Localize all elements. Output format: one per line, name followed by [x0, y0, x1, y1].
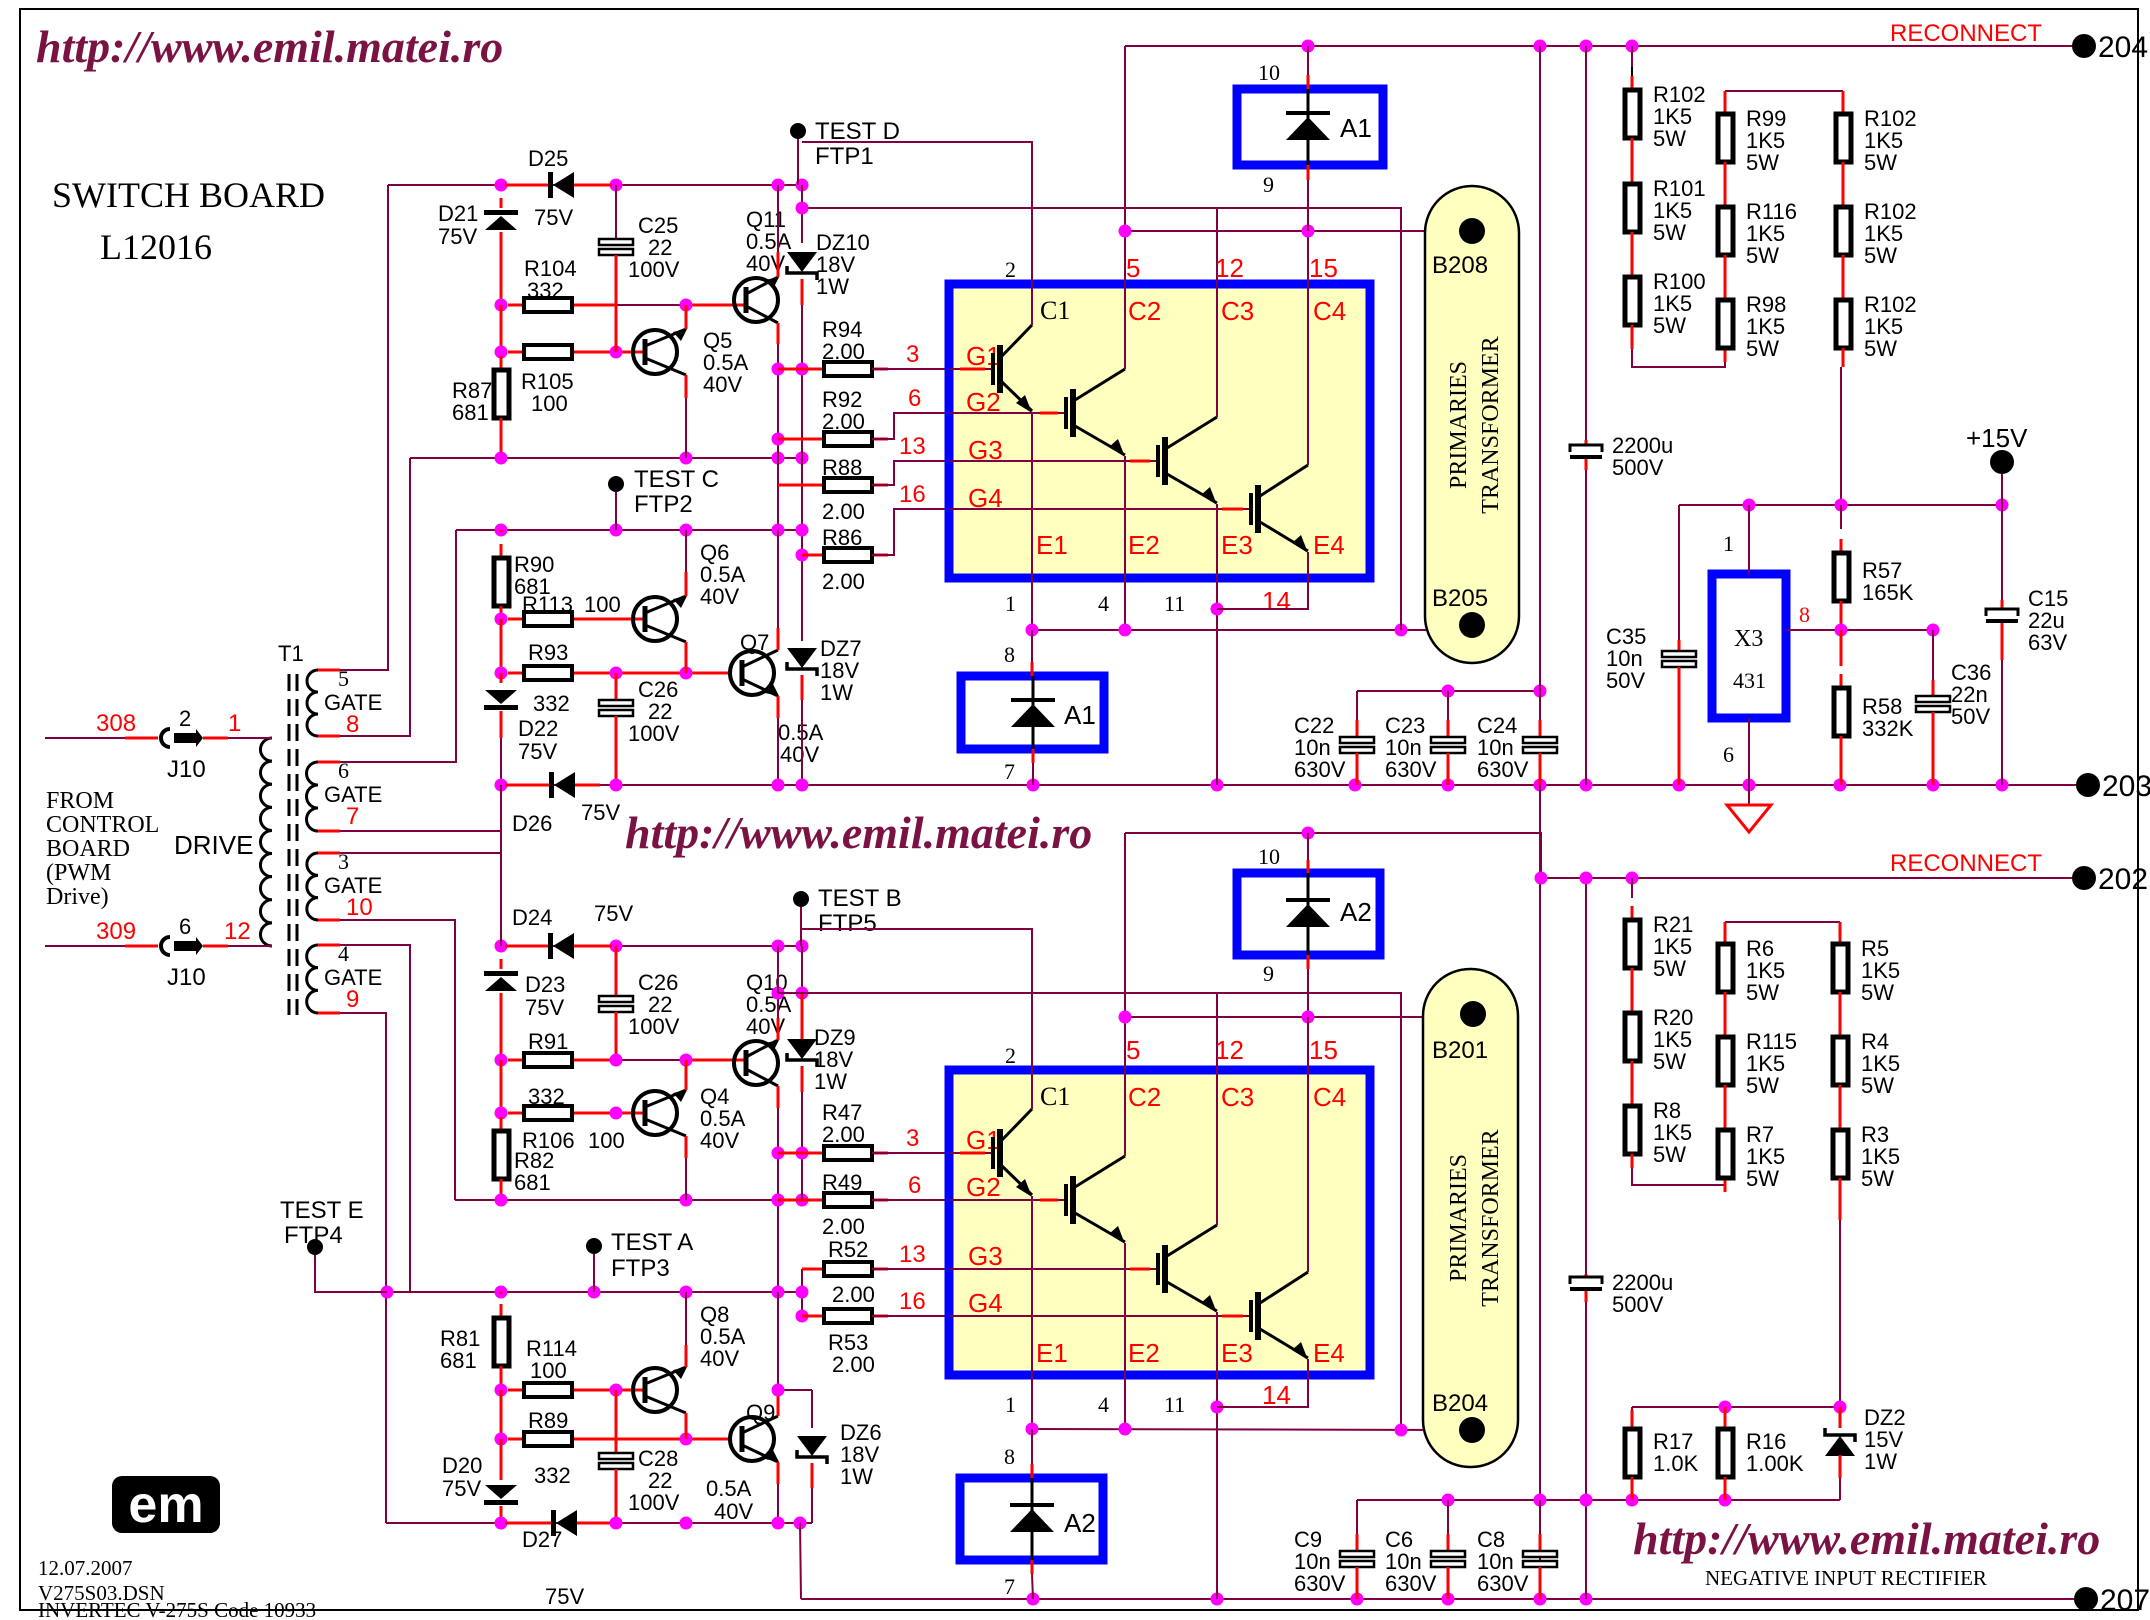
bus x802 TEST B column [800, 907, 802, 946]
label R102 1K5 5W [1864, 199, 1917, 224]
label R87 681 [452, 378, 492, 403]
junction dot R49 left [772, 1194, 785, 1207]
label C28 22 100V [638, 1446, 678, 1471]
svg-text:TEST B: TEST B [818, 885, 902, 912]
wire C2 column above box 2 [1124, 833, 1126, 1070]
wire R106 to Q4 base [588, 1112, 645, 1115]
wire Q5 collector to node [685, 305, 688, 329]
svg-text:630V: 630V [1294, 1571, 1346, 1596]
wire Q10 emitter to R47 row [777, 1086, 780, 1108]
resistor R49 [778, 1199, 824, 1202]
label D20 75V [442, 1453, 482, 1478]
svg-text:G4: G4 [968, 1288, 1003, 1318]
svg-text:2: 2 [179, 706, 191, 731]
connector J10 pin 2 (net 308) [45, 729, 272, 747]
svg-text:2.00: 2.00 [822, 569, 865, 594]
net block D bottom [386, 1522, 812, 1524]
wire pin14 link bottom [1217, 1375, 1308, 1407]
svg-text:G2: G2 [966, 1172, 1001, 1202]
svg-text:RECONNECT: RECONNECT [1890, 20, 2042, 47]
wire D21 to R104 node [500, 232, 503, 305]
label E1 red [1036, 530, 1068, 560]
label R104 332 [524, 256, 577, 281]
wire C1 column inside box [1031, 284, 1033, 325]
svg-text:C3: C3 [1221, 296, 1254, 326]
diode D27 [505, 1522, 551, 1525]
bus x778 block C/D [777, 946, 779, 993]
label DZ6 18V 1W [840, 1420, 882, 1445]
terminal 202 [2072, 866, 2096, 890]
label C4 red [1313, 296, 1346, 326]
svg-text:TRANSFORMER: TRANSFORMER [1478, 1129, 1504, 1306]
wire R49 to G2 pin 6 [872, 1199, 950, 1201]
label pin 5 red bottom box [1126, 1035, 1140, 1065]
label pin 12 red [1215, 253, 1244, 283]
label +15V [1966, 423, 2028, 453]
label R93 332 [528, 640, 568, 665]
label X3 pin 1 [1723, 531, 1734, 556]
svg-text:Q7: Q7 [740, 630, 769, 655]
em logo [112, 1476, 220, 1534]
label G2 red [966, 387, 1001, 417]
svg-text:D24: D24 [512, 905, 552, 930]
svg-text:E3: E3 [1221, 530, 1253, 560]
terminal +15V [1990, 450, 2014, 474]
resistor R53 [801, 1295, 803, 1316]
svg-text:7: 7 [346, 803, 359, 830]
label pin 15 red bottom box [1309, 1035, 1338, 1065]
junction dots 207 net [1027, 1593, 1040, 1606]
svg-text:CONTROL: CONTROL [46, 812, 159, 838]
label C22 10n 630V [1294, 713, 1334, 738]
svg-text:A1: A1 [1340, 113, 1372, 143]
label pin 14 red bottom box [1262, 1380, 1291, 1410]
svg-text:C1: C1 [1040, 296, 1070, 325]
svg-text:DRIVE: DRIVE [174, 830, 253, 860]
test point TEST B [793, 891, 809, 907]
svg-text:E2: E2 [1128, 530, 1160, 560]
wire C3 column inside box 2 [1216, 1070, 1218, 1225]
svg-text:5W: 5W [1653, 313, 1686, 338]
wire T1 pin3 lead to block C net [318, 852, 501, 854]
svg-text:10: 10 [1258, 60, 1280, 85]
label Q6 0.5A 40V [700, 540, 729, 565]
resistor R16 [1724, 1407, 1727, 1430]
svg-text:5W: 5W [1746, 1073, 1779, 1098]
wire node to DZ7 [801, 555, 803, 641]
label DZ10 18V 1W [816, 230, 870, 255]
capacitor C23 [1447, 691, 1449, 720]
svg-text:5W: 5W [1861, 980, 1894, 1005]
wire pin3 column into block C [500, 853, 502, 946]
junction dots 204 net [1302, 40, 1315, 53]
svg-text:R86: R86 [822, 525, 862, 550]
junction dots E bus bottom [1026, 1423, 1039, 1436]
wire Q6 collector to block B net [685, 572, 688, 596]
svg-text:G3: G3 [968, 1241, 1003, 1271]
wire R3 down to DZ2 link [1839, 1178, 1842, 1220]
label pin 9 bottom half [1263, 961, 1274, 986]
label D25 [528, 146, 568, 171]
resistor R93 [508, 666, 588, 680]
svg-text:1W: 1W [816, 274, 849, 299]
svg-text:14: 14 [1262, 586, 1291, 616]
terminal 203 [2076, 773, 2100, 797]
wire Q10 collector to y993 node [777, 1018, 780, 1040]
svg-text:E3: E3 [1221, 1338, 1253, 1368]
ground symbol [1748, 785, 1750, 805]
svg-text:5W: 5W [1653, 220, 1686, 245]
label R49 2.00 [822, 1170, 862, 1195]
wire R94 to G1 pin 3 [872, 368, 950, 370]
net block A bottom [410, 457, 802, 459]
zener DZ9 [801, 993, 804, 1040]
wire R81 to R114 row [500, 1366, 503, 1390]
wire Q4 collector to node [685, 1060, 688, 1090]
label TEST B FTP5 [818, 885, 902, 912]
diode D26 [505, 784, 549, 787]
label pin 9 top [1263, 172, 1274, 197]
wire R21 top stub [1631, 878, 1633, 898]
watermark url middle [625, 807, 1092, 858]
resistor R47 [778, 1152, 824, 1155]
net 204 top [1125, 45, 2083, 47]
wire X3 pin1 [1748, 505, 1750, 574]
bus x1586 vertical with 2200u caps [1585, 46, 1587, 440]
transformer T1 secondary GATE winding pins 4-9 [307, 945, 318, 1013]
wire R113 node down to R93 node [500, 619, 503, 673]
svg-text:C1: C1 [1040, 1082, 1070, 1111]
svg-text:630V: 630V [1477, 757, 1529, 782]
svg-text:5W: 5W [1653, 1142, 1686, 1167]
svg-text:B205: B205 [1432, 585, 1488, 612]
net block C bottom [455, 1199, 778, 1201]
resistor R52 [801, 1269, 803, 1295]
wire Q7 emitter to 203 net [777, 696, 780, 718]
svg-text:E1: E1 [1036, 1338, 1068, 1368]
label winding pin 4 GATE 9 [338, 941, 349, 966]
svg-text:D22: D22 [518, 716, 558, 741]
svg-text:500V: 500V [1612, 1292, 1664, 1317]
label Q9 0.5A 40V [706, 1476, 752, 1501]
label Q5 0.5A 40V [703, 328, 732, 353]
wire R52 to G3 pin 13 [872, 1268, 950, 1270]
svg-text:INVERTEC V-275S Code 10933: INVERTEC V-275S Code 10933 [38, 1598, 316, 1620]
svg-text:75V: 75V [594, 901, 633, 926]
label pin 6 red [908, 385, 921, 412]
label C9 10n 630V [1294, 1527, 1322, 1552]
wire Q9 emitter to block D bottom net [777, 1462, 780, 1484]
svg-text:50V: 50V [1606, 668, 1645, 693]
junction dot R106 right node [610, 1107, 623, 1120]
resistor R6 [1718, 930, 1733, 1006]
label pin 8 bottom half [1004, 1444, 1015, 1469]
svg-text:5W: 5W [1861, 1166, 1894, 1191]
wire R91 node down to R106 node [500, 1060, 503, 1113]
svg-text:E4: E4 [1313, 530, 1345, 560]
transistor Q4 [633, 1090, 687, 1136]
wire R102a top stub [1631, 46, 1633, 67]
label 6 [179, 914, 191, 939]
label R101 1K5 5W [1653, 176, 1706, 201]
wire T1 pin6 lead to block B net [318, 530, 456, 762]
wire pin11 column below box 2 [1216, 1375, 1218, 1599]
resistor R5 [1833, 930, 1848, 1006]
watermark url bottom-right [1633, 1513, 2100, 1564]
svg-text:6: 6 [1723, 742, 1734, 767]
svg-text:G1: G1 [966, 1125, 1001, 1155]
capacitor C24 [1539, 691, 1541, 720]
svg-text:75V: 75V [525, 995, 564, 1020]
wire Q4 emitter to bottom net [685, 1136, 688, 1158]
junction dot C26 bottom block C [610, 1054, 623, 1067]
resistor R86 [802, 554, 824, 557]
IGBT 2 of module 2 [950, 1199, 1066, 1201]
label Q4 0.5A 40V [700, 1084, 729, 1109]
junction dot C26 top [610, 667, 623, 680]
label A2 top [1340, 897, 1372, 927]
svg-text:40V: 40V [703, 372, 742, 397]
label R90 681 [514, 552, 554, 577]
svg-text:5W: 5W [1653, 1049, 1686, 1074]
label R106 100 [522, 1128, 575, 1153]
svg-text:B204: B204 [1432, 1390, 1488, 1417]
junction dots pin8 net [1835, 624, 1848, 637]
wire T1 pin4 lead to TEST A net [318, 945, 410, 1292]
diode A1 bottom [1031, 630, 1033, 662]
wire R92 jog to G2 pin 6 [872, 413, 950, 439]
wire R47 to G1 pin 3 [872, 1152, 950, 1154]
label E4 red [1313, 530, 1345, 560]
junction dot C25 bottom [610, 346, 623, 359]
label R7 1K5 5W [1746, 1122, 1774, 1147]
label R91 332 [528, 1029, 568, 1054]
wire Q5 emitter to bottom net [685, 375, 688, 398]
note FROM CONTROL BOARD (PWM Drive) [46, 788, 114, 814]
label pin 5 red [1126, 253, 1140, 283]
svg-text:A2: A2 [1340, 897, 1372, 927]
svg-text:16: 16 [899, 1288, 926, 1315]
net A2 top (bottom half) [1125, 833, 1541, 878]
junction dot pin14 link [1211, 603, 1224, 616]
label R47 2.00 [822, 1100, 862, 1125]
label R52 2.00 [828, 1237, 868, 1262]
resistor R102 [1836, 193, 1851, 269]
title SWITCH BOARD [52, 175, 325, 215]
label C4 red bottom box [1313, 1082, 1346, 1112]
label D22 75V [518, 716, 558, 741]
svg-text:15: 15 [1309, 253, 1338, 283]
terminal B201 [1460, 1001, 1486, 1027]
capacitor C26 block B [615, 673, 618, 700]
label R100 1K5 5W [1653, 269, 1706, 294]
label E4 red bottom box [1313, 1338, 1345, 1368]
svg-text:E4: E4 [1313, 1338, 1345, 1368]
wire C4 column inside box [1307, 284, 1309, 465]
svg-text:TEST A: TEST A [611, 1229, 693, 1256]
svg-text:2.00: 2.00 [822, 339, 865, 364]
label C3 red [1221, 296, 1254, 326]
svg-text:5W: 5W [1746, 1166, 1779, 1191]
snubber diode box A2 bottom [960, 1478, 1103, 1560]
label D23 75V [525, 972, 565, 997]
svg-text:Drive): Drive) [46, 884, 109, 910]
junction dot DZ9 top [796, 987, 809, 1000]
terminal B208 [1459, 218, 1485, 244]
label B204 [1432, 1390, 1488, 1417]
svg-text:G1: G1 [966, 341, 1001, 371]
net y208 to B205 loop [802, 208, 1401, 620]
label DZ9 18V 1W [814, 1025, 856, 1050]
label C26 22 100V block B [638, 677, 678, 702]
svg-text:Q9: Q9 [746, 1400, 775, 1425]
label C36 22n 50V [1951, 660, 1991, 685]
junction dot Q5 collector node [680, 299, 693, 312]
label C23 10n 630V [1385, 713, 1425, 738]
svg-text:TEST E: TEST E [280, 1197, 364, 1224]
IGBT 4 of module 2 [950, 1315, 1251, 1317]
resistor R87 [494, 356, 509, 432]
label pin 6 red bottom [908, 1172, 921, 1199]
label G1 red [966, 341, 1001, 371]
diode A1 top [1307, 46, 1309, 75]
svg-text:D23: D23 [525, 972, 565, 997]
label DZ2 15V 1W [1864, 1405, 1906, 1430]
capacitor 2200u bottom [1570, 1277, 1602, 1291]
svg-text:FTP3: FTP3 [611, 1255, 670, 1282]
svg-text:5W: 5W [1864, 243, 1897, 268]
label C26 22 100V block C [638, 970, 678, 995]
label pin 10 bottom half [1258, 844, 1280, 869]
label G2 red bottom box [966, 1172, 1001, 1202]
svg-text:SWITCH BOARD: SWITCH BOARD [52, 175, 325, 215]
label pin 16 red [899, 481, 926, 508]
label R6 1K5 5W [1746, 936, 1774, 961]
bus x778 down block A/B [777, 369, 779, 530]
svg-text:1.00K: 1.00K [1746, 1451, 1804, 1476]
label 308 [96, 710, 136, 737]
resistor R102 [1625, 76, 1640, 152]
label E3 red bottom box [1221, 1338, 1253, 1368]
svg-text:2.00: 2.00 [822, 409, 865, 434]
transistor Q8 [633, 1367, 687, 1413]
wire pin14 link [1217, 578, 1308, 609]
label winding pin 5 GATE 8 [338, 666, 349, 691]
test point TEST A [586, 1238, 602, 1254]
transformer T1 secondary GATE winding pins 6-7 [307, 762, 319, 831]
wire R89 to Q9 base node [588, 1438, 730, 1441]
label pin 3 red [906, 341, 919, 368]
label J10 lower [167, 964, 206, 991]
net block B top [456, 529, 802, 531]
label A1 top [1340, 113, 1372, 143]
file V275S03.DSN [38, 1581, 165, 1605]
wire R93 to Q7 base node [588, 672, 730, 675]
label 2200u 500V bottom [1612, 1270, 1673, 1295]
resistor R115 [1718, 1023, 1733, 1099]
label C1 [1040, 296, 1070, 325]
svg-text:2: 2 [1005, 257, 1016, 282]
label C6 10n 630V [1385, 1527, 1413, 1552]
svg-text:75V: 75V [442, 1476, 481, 1501]
svg-text:C2: C2 [1128, 296, 1161, 326]
junction dots block A bottom net [495, 452, 508, 465]
svg-text:14: 14 [1262, 1380, 1291, 1410]
svg-text:3: 3 [906, 341, 919, 368]
svg-text:4: 4 [1098, 591, 1109, 616]
diode D23 [500, 959, 503, 969]
label R99 1K5 5W [1746, 106, 1786, 131]
svg-text:FTP4: FTP4 [284, 1222, 343, 1249]
label R53 2.00 [828, 1330, 868, 1355]
wire T1 pin7 lead to 203 net [318, 830, 501, 832]
junction dots bottom cap link [1442, 1494, 1455, 1507]
junction dot y208 left [796, 202, 809, 215]
capacitor C35 [1678, 505, 1680, 640]
link top of columns 2-3 [1725, 90, 1843, 92]
wire Q8 emitter to R89 row [685, 1413, 688, 1439]
svg-text:9: 9 [1263, 172, 1274, 197]
svg-text:204: 204 [2098, 31, 2148, 64]
label X3 431 [1734, 626, 1763, 652]
svg-text:13: 13 [899, 1241, 926, 1268]
label Q7 [740, 630, 769, 655]
snubber diode box A2 top [1237, 873, 1380, 955]
svg-text:332: 332 [527, 278, 564, 303]
label D26 75V [581, 800, 620, 825]
label R102 1K5 5W [1653, 82, 1706, 107]
bus x1540 vertical [1539, 46, 1541, 691]
wire R90 to R113 row [500, 606, 503, 619]
svg-text:R49: R49 [822, 1170, 862, 1195]
label G3 red [968, 435, 1003, 465]
label pin 10 top [1258, 60, 1280, 85]
svg-text:5W: 5W [1864, 150, 1897, 175]
wire R114 node down to R89 node [500, 1390, 503, 1439]
label R115 1K5 5W [1746, 1029, 1797, 1054]
svg-text:100: 100 [588, 1128, 625, 1153]
label R20 1K5 5W [1653, 1005, 1693, 1030]
junction dot R113 left [495, 613, 508, 626]
snubber diode box A1 top [1237, 89, 1383, 165]
svg-text:15: 15 [1309, 1035, 1338, 1065]
label DZ7 18V 1W [820, 636, 862, 661]
transistor Q9 [730, 1416, 779, 1462]
junction dot R89 left [495, 1433, 508, 1446]
svg-text:PRIMARIES: PRIMARIES [1446, 361, 1472, 489]
net B201 link [1125, 1016, 1460, 1018]
svg-text:11: 11 [1164, 591, 1185, 616]
wire pin11 column below box [1216, 578, 1218, 785]
resistor R106 [508, 1106, 588, 1120]
label 1 red [228, 710, 241, 737]
svg-text:+15V: +15V [1966, 423, 2028, 453]
resistor R92 [778, 438, 824, 441]
resistor R113 [508, 612, 588, 626]
wire Q7 collector to block B net [777, 628, 780, 650]
wire +15V terminal stub [2001, 474, 2003, 505]
label pin 1 [1005, 591, 1016, 616]
diode D20 [500, 1439, 503, 1480]
resistor R58 [1840, 630, 1843, 666]
svg-text:C4: C4 [1313, 1082, 1346, 1112]
svg-text:R91: R91 [528, 1029, 568, 1054]
label PRIMARIES TRANSFORMER bottom capsule [1446, 1129, 1504, 1306]
svg-text:100: 100 [531, 391, 568, 416]
svg-text:8: 8 [346, 711, 359, 738]
svg-text:E1: E1 [1036, 530, 1068, 560]
capacitor C36 [1932, 630, 1934, 680]
